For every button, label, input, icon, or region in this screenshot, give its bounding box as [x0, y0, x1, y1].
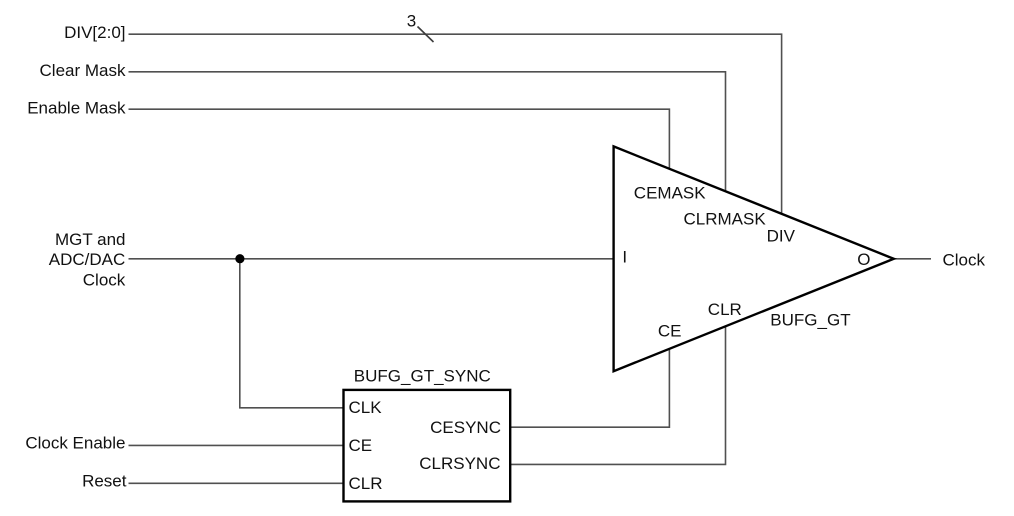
wire MGT clock input to I pin: [129, 258, 614, 260]
svg-text:Clear Mask: Clear Mask: [40, 61, 126, 80]
wire Reset to CLR pin of BUFG_GT_SYNC: [129, 482, 344, 484]
svg-text:CE: CE: [349, 436, 373, 455]
wire CLRSYNC to CLR pin: [510, 326, 725, 464]
svg-text:CE: CE: [658, 322, 682, 341]
wire DIV[2:0] bus to DIV pin: [129, 34, 782, 214]
svg-text:3: 3: [407, 11, 416, 30]
svg-text:Clock: Clock: [943, 251, 986, 270]
svg-text:Clock Enable: Clock Enable: [25, 433, 125, 452]
svg-text:O: O: [857, 250, 870, 269]
node junction dot: [235, 254, 244, 263]
op-amp style buffer BUFG_GT triangle: [614, 146, 894, 371]
svg-text:ADC/DAC: ADC/DAC: [49, 250, 126, 269]
wire junction to CLK pin of BUFG_GT_SYNC: [240, 259, 344, 408]
svg-text:MGT and: MGT and: [55, 230, 126, 249]
wire Clear Mask to CLRMASK pin: [129, 72, 726, 192]
component box BUFG_GT_SYNC: [344, 390, 511, 502]
svg-text:DIV[2:0]: DIV[2:0]: [64, 23, 125, 42]
svg-text:BUFG_GT_SYNC: BUFG_GT_SYNC: [354, 367, 491, 386]
wire output O to Clock: [894, 258, 931, 260]
svg-text:CLR: CLR: [708, 300, 742, 319]
svg-text:CEMASK: CEMASK: [634, 184, 706, 203]
svg-text:DIV: DIV: [767, 226, 796, 245]
wire Clock Enable to CE pin of BUFG_GT_SYNC: [129, 444, 344, 446]
svg-text:I: I: [622, 248, 627, 267]
svg-text:CLRMASK: CLRMASK: [684, 209, 767, 228]
wire Enable Mask to CEMASK pin: [129, 109, 670, 169]
wire CESYNC to CE pin: [510, 349, 669, 427]
bus width slash: [418, 27, 434, 43]
svg-text:Reset: Reset: [82, 472, 127, 491]
svg-text:Enable Mask: Enable Mask: [27, 99, 126, 118]
svg-text:CLRSYNC: CLRSYNC: [419, 454, 500, 473]
svg-text:Clock: Clock: [83, 270, 126, 289]
svg-text:BUFG_GT: BUFG_GT: [770, 310, 850, 329]
svg-text:CLR: CLR: [349, 474, 383, 493]
svg-text:CESYNC: CESYNC: [430, 418, 501, 437]
svg-text:CLK: CLK: [349, 398, 383, 417]
